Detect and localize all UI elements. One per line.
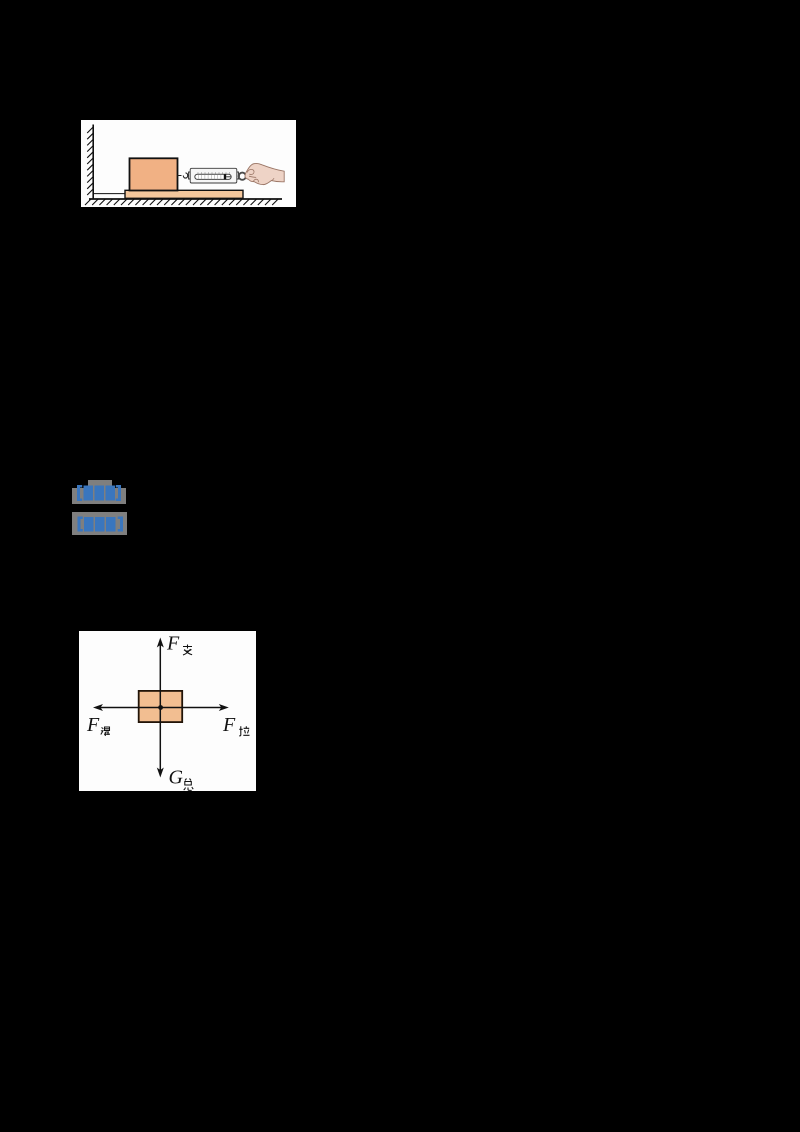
hand: curled index finger [247, 169, 254, 174]
spring scale body [189, 172, 191, 179]
plunger [224, 174, 226, 179]
拉 subscript [239, 726, 249, 736]
answer link box 2 [72, 512, 127, 535]
vertical force line [159, 645, 161, 770]
hand [245, 163, 284, 184]
hand: wrist crease [272, 178, 275, 180]
left arrowhead (F滑) [93, 704, 103, 711]
支 subscript [183, 645, 192, 656]
wall [92, 125, 94, 200]
hand: lower finger crease [254, 179, 259, 182]
hand: thumb edge [249, 176, 256, 177]
down arrowhead (G总) [157, 768, 164, 778]
up arrowhead (F支) [157, 638, 164, 648]
right arrowhead (F拉) [219, 704, 229, 711]
figure 2 panel: free-body force diagram [79, 631, 256, 791]
scale ticks row [198, 172, 230, 174]
block [130, 158, 178, 190]
滑 subscript [101, 727, 110, 736]
center dot [158, 705, 163, 710]
hook between block and scale [178, 173, 191, 178]
svg-text:F: F [86, 714, 100, 736]
block [139, 691, 183, 722]
floor hatching [85, 199, 278, 205]
connector to ring [238, 175, 240, 177]
figure 1 panel: block pulled by spring scale on plank [81, 120, 296, 207]
answer link box 1 [88, 480, 112, 489]
surface line from wall to plank [93, 193, 126, 195]
floor [89, 198, 282, 200]
plank [125, 190, 243, 198]
总 subscript [184, 779, 194, 791]
svg-text:F: F [222, 714, 236, 736]
horizontal force line [100, 707, 222, 709]
scale tube [195, 174, 231, 179]
wall hatching [87, 127, 93, 195]
svg-text:G: G [169, 767, 184, 789]
ring [239, 173, 246, 180]
svg-text:F: F [166, 633, 180, 655]
